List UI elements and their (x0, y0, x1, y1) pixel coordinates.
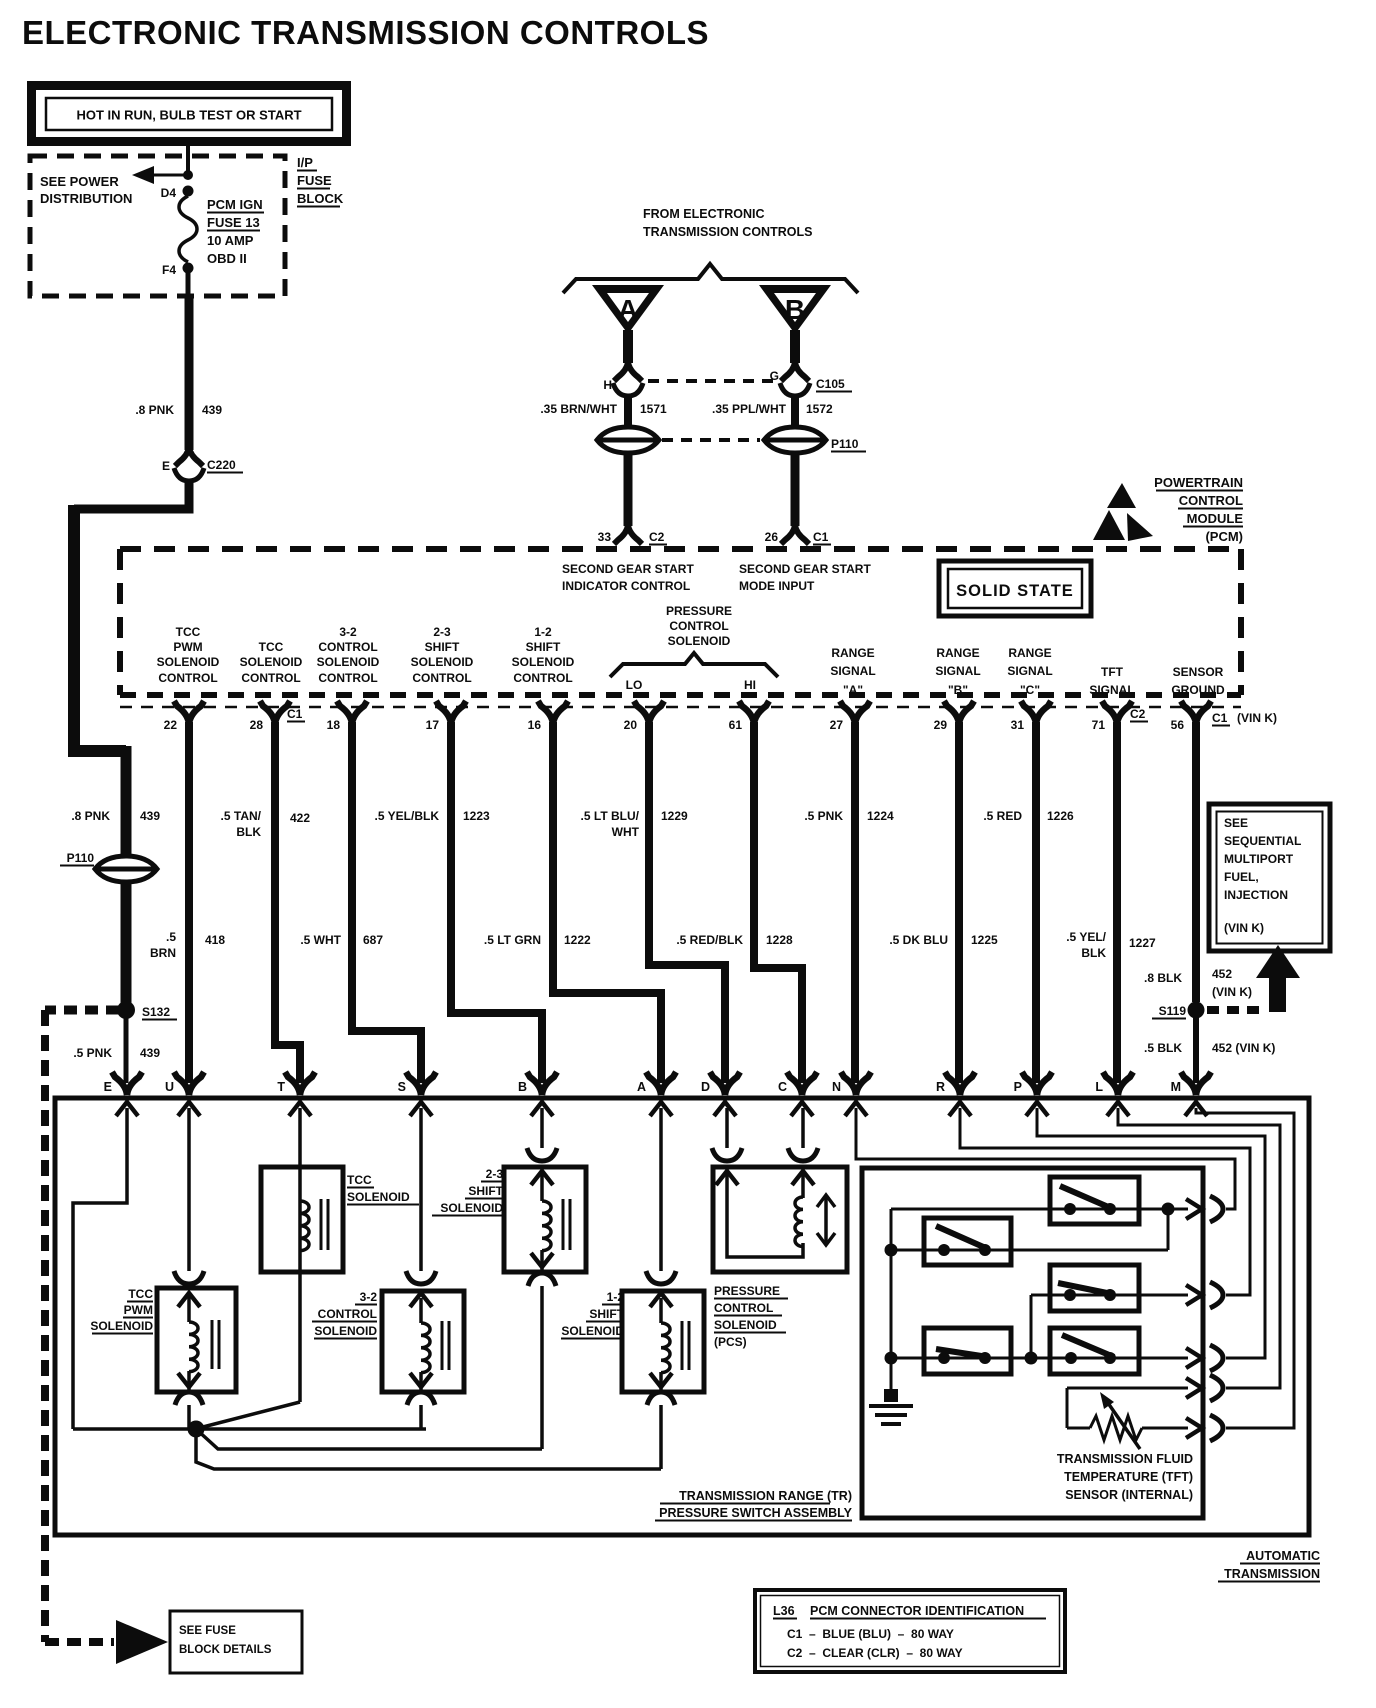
svg-text:.5 PNK: .5 PNK (73, 1046, 112, 1060)
svg-text:1226: 1226 (1047, 809, 1074, 823)
TR row 3 exit connector (1186, 1345, 1223, 1371)
pin arrow A (650, 1102, 672, 1116)
connector at TCC PWM solenoid top (174, 1271, 204, 1307)
svg-text:PWM: PWM (124, 1303, 153, 1317)
svg-text:SOLENOID: SOLENOID (90, 1319, 153, 1333)
wire .35 BRN/WHT 1571 (540, 397, 667, 425)
PCM pin 27 (830, 701, 870, 732)
svg-text:ELECTRONIC TRANSMISSION CONTRO: ELECTRONIC TRANSMISSION CONTROLS (22, 14, 709, 51)
svg-text:S132: S132 (142, 1005, 170, 1019)
TR row 2 exit connector (1186, 1282, 1223, 1308)
connector at TCC PWM solenoid bottom (175, 1373, 203, 1405)
svg-text:BLOCK DETAILS: BLOCK DETAILS (179, 1644, 272, 1656)
svg-text:SOLENOID: SOLENOID (668, 634, 731, 648)
label TCC SOLENOID CONTROL (240, 640, 303, 685)
label .5 DK BLU 1225 (889, 933, 998, 947)
I/P fuse block dashed box (30, 156, 285, 296)
svg-text:SOLENOID: SOLENOID (440, 1201, 503, 1215)
svg-text:418: 418 (205, 933, 225, 947)
wire D to PCS (725, 1108, 729, 1148)
transmission connector E (104, 1072, 142, 1095)
pin arrow D (714, 1102, 736, 1116)
svg-text:P110: P110 (831, 437, 859, 451)
svg-text:.35 BRN/WHT: .35 BRN/WHT (540, 402, 617, 416)
wire 439 below fuse (186, 272, 191, 296)
wire .8 PNK 439 lower (71, 746, 160, 854)
label .5 PNK 1224 (804, 809, 894, 823)
svg-text:1222: 1222 (564, 933, 591, 947)
svg-text:PCM IGN: PCM IGN (207, 197, 263, 212)
svg-text:1223: 1223 (463, 809, 490, 823)
wire 18 to S (352, 722, 421, 1083)
node D4 (161, 186, 194, 201)
svg-text:1227: 1227 (1129, 936, 1156, 950)
svg-text:2-3: 2-3 (433, 625, 451, 639)
wire R to TR row 2 (960, 1108, 1250, 1295)
label C1 at pin 28 (287, 707, 305, 722)
transmission connector M (1171, 1072, 1211, 1095)
dashed tie S119 to arrow (1207, 1006, 1262, 1014)
junction node row3 (1025, 1352, 1038, 1365)
switch SW5 (924, 1328, 1011, 1374)
brace PCS LO HI (610, 653, 778, 677)
triangle A (592, 285, 664, 334)
PCM pin 16 (528, 701, 568, 732)
svg-text:1229: 1229 (661, 809, 688, 823)
label RANGE SIGNAL C (1007, 646, 1052, 697)
svg-text:BLK: BLK (1081, 946, 1106, 960)
HOT IN RUN banner box (32, 86, 347, 142)
pin arrow P (1026, 1102, 1048, 1116)
wire A to pin 33 (624, 455, 633, 526)
fuse PCM IGN FUSE 13 10 AMP (179, 196, 197, 262)
svg-text:PRESSURE: PRESSURE (666, 604, 732, 618)
label PRESSURE CONTROL SOLENOID (666, 604, 732, 648)
splice S132 (117, 1001, 177, 1020)
svg-text:33: 33 (598, 530, 612, 544)
svg-text:18: 18 (327, 718, 341, 732)
svg-text:TRANSMISSION CONTROLS: TRANSMISSION CONTROLS (643, 225, 812, 239)
wire E inside box (73, 1108, 127, 1429)
label .5 YEL/BLK 1223 (375, 809, 490, 823)
svg-text:MODULE: MODULE (1187, 511, 1244, 526)
wire 31 to P (1032, 722, 1040, 1083)
pin arrow R (949, 1102, 971, 1116)
svg-text:.5 RED/BLK: .5 RED/BLK (676, 933, 743, 947)
svg-text:.5 YEL/: .5 YEL/ (1066, 930, 1106, 944)
svg-text:N: N (832, 1080, 841, 1094)
label 3-2 CONTROL SOLENOID CONTROL (317, 625, 380, 685)
label TCC PWM SOLENOID CONTROL (157, 625, 220, 685)
svg-text:S: S (398, 1080, 406, 1094)
solenoid 3-2 CONTROL (382, 1291, 464, 1392)
svg-text:27: 27 (830, 718, 844, 732)
pin 33 C2 (598, 525, 667, 545)
PCM pin 56 (1171, 701, 1211, 732)
PCM pin 22 (164, 701, 204, 732)
svg-text:A: A (618, 294, 638, 325)
label SECOND GEAR START INDICATOR CONTROL (562, 562, 694, 593)
svg-text:H: H (603, 378, 612, 392)
PCM dashed box (120, 549, 1241, 707)
svg-text:22: 22 (164, 718, 178, 732)
label AUTOMATIC TRANSMISSION (1218, 1549, 1320, 1582)
transmission connector A (637, 1072, 676, 1095)
transmission connector U (165, 1072, 204, 1095)
dashed tie C105 (648, 379, 776, 383)
wire T through TCC solenoid (298, 1108, 302, 1402)
svg-text:2-3: 2-3 (486, 1167, 504, 1181)
svg-text:M: M (1171, 1080, 1181, 1094)
pin 26 C1 (765, 525, 831, 545)
ground bus node at SW2 (885, 1244, 898, 1257)
drop from SW3 to row3 (1030, 1295, 1033, 1358)
PCM pin 18 (327, 701, 367, 732)
svg-text:POWERTRAIN: POWERTRAIN (1154, 475, 1243, 490)
svg-text:SHIFT: SHIFT (468, 1184, 503, 1198)
svg-text:SOLID STATE: SOLID STATE (956, 582, 1074, 600)
wire 29 to R (955, 722, 963, 1083)
wire to splice (121, 884, 132, 1004)
PCM pin 61 (729, 701, 769, 732)
svg-text:SOLENOID: SOLENOID (347, 1190, 410, 1204)
svg-text:(VIN K): (VIN K) (1212, 985, 1252, 999)
svg-text:(PCS): (PCS) (714, 1335, 747, 1349)
svg-text:SOLENOID: SOLENOID (561, 1324, 624, 1338)
svg-text:SOLENOID: SOLENOID (240, 655, 303, 669)
TR pressure switch assembly box (862, 1168, 1203, 1518)
wire 28 to T (275, 722, 300, 1083)
label C1 (VIN K) at pin 56 (1212, 711, 1277, 726)
wire 71 to L (1113, 722, 1121, 1083)
svg-text:31: 31 (1011, 718, 1025, 732)
label TRANSMISSION RANGE (TR) PRESSURE SWITCH ASSEMBLY (655, 1489, 853, 1521)
wire .8 PNK 439 (135, 296, 222, 450)
svg-text:T: T (277, 1080, 285, 1094)
svg-text:C: C (778, 1080, 787, 1094)
label 1-2 SHIFT SOLENOID CONTROL (512, 625, 575, 685)
svg-text:10 AMP: 10 AMP (207, 233, 254, 248)
svg-text:AUTOMATIC: AUTOMATIC (1246, 1549, 1320, 1563)
svg-text:FUSE 13: FUSE 13 (207, 215, 260, 230)
svg-text:(VIN K): (VIN K) (1224, 921, 1264, 935)
svg-text:TCC: TCC (259, 640, 284, 654)
svg-text:A: A (637, 1080, 646, 1094)
svg-text:TEMPERATURE (TFT): TEMPERATURE (TFT) (1064, 1470, 1193, 1484)
svg-text:RANGE: RANGE (936, 646, 979, 660)
svg-text:U: U (165, 1080, 174, 1094)
junction node row1 (1162, 1203, 1175, 1216)
svg-text:CONTROL: CONTROL (318, 1307, 377, 1321)
solenoid 2-3 SHIFT (504, 1167, 586, 1272)
PCM pin 29 (934, 701, 974, 732)
wire trunk left side (74, 505, 126, 751)
label I/P FUSE BLOCK (297, 155, 344, 207)
svg-text:C1 – BLUE (BLU) – 80 WAY: C1 – BLUE (BLU) – 80 WAY (787, 1627, 954, 1641)
SEE SEQUENTIAL MULTIPORT FUEL INJECTION box (1209, 804, 1330, 951)
label RANGE SIGNAL B (935, 646, 980, 697)
TR row 1 exit connector (1168, 1196, 1223, 1222)
wire A to 1-2 shift solenoid (659, 1108, 663, 1271)
svg-text:RANGE: RANGE (1008, 646, 1051, 660)
svg-text:SEQUENTIAL: SEQUENTIAL (1224, 834, 1301, 848)
SEE FUSE BLOCK DETAILS box (170, 1611, 302, 1673)
label SECOND GEAR START MODE INPUT (739, 562, 871, 593)
PCM pin 31 (1011, 701, 1051, 732)
svg-text:P110: P110 (67, 851, 95, 865)
label 2-3 SHIFT SOLENOID (432, 1167, 504, 1216)
svg-text:.5 WHT: .5 WHT (300, 933, 341, 947)
arrow to power distribution (132, 166, 187, 184)
PCM pin 20 (624, 701, 664, 732)
svg-text:.5 PNK: .5 PNK (804, 809, 843, 823)
svg-text:1-2: 1-2 (607, 1290, 625, 1304)
svg-text:GROUND: GROUND (1171, 683, 1225, 697)
wire U to TCC PWM solenoid (187, 1108, 191, 1271)
svg-text:CONTROL: CONTROL (513, 671, 572, 685)
wire 61 to C (754, 722, 802, 1083)
svg-text:C1: C1 (1212, 711, 1228, 725)
svg-text:3-2: 3-2 (360, 1290, 378, 1304)
svg-text:SECOND GEAR START: SECOND GEAR START (739, 562, 871, 576)
svg-text:SOLENOID: SOLENOID (317, 655, 380, 669)
svg-text:.8 PNK: .8 PNK (135, 403, 174, 417)
svg-text:56: 56 (1171, 718, 1185, 732)
svg-text:S119: S119 (1159, 1004, 1187, 1018)
wire from hot bus (186, 146, 190, 172)
TR row 3 wire (891, 1357, 1188, 1360)
svg-text:.5 BLK: .5 BLK (1144, 1041, 1182, 1055)
pin arrow E (116, 1102, 138, 1116)
node F4 (162, 263, 194, 278)
wire 2-3 solenoid to ground line (540, 1286, 544, 1449)
svg-text:.5 LT GRN: .5 LT GRN (484, 933, 541, 947)
svg-text:TRANSMISSION FLUID: TRANSMISSION FLUID (1057, 1452, 1193, 1466)
svg-text:R: R (936, 1080, 945, 1094)
wire L to TFT signal (1118, 1108, 1280, 1388)
svg-text:(VIN K): (VIN K) (1237, 711, 1277, 725)
svg-text:1225: 1225 (971, 933, 998, 947)
label TCC PWM SOLENOID (90, 1287, 153, 1334)
label RANGE SIGNAL A (830, 646, 875, 697)
label 1-2 SHIFT SOLENOID (561, 1290, 625, 1339)
switch SW1 (1050, 1177, 1139, 1224)
svg-text:SOLENOID: SOLENOID (512, 655, 575, 669)
svg-text:"A": "A" (843, 683, 863, 697)
connector at 2-3 solenoid top (527, 1148, 557, 1185)
svg-text:SEE: SEE (1224, 816, 1248, 830)
transmission connector D (701, 1072, 740, 1095)
drop from row1 junction (1167, 1209, 1170, 1250)
TR ground bus (890, 1209, 893, 1392)
solenoid PRESSURE CONTROL (PCS) (713, 1167, 847, 1272)
label .5 LT GRN 1222 (484, 933, 591, 947)
svg-text:452 (VIN K): 452 (VIN K) (1212, 1041, 1275, 1055)
TFT sensor top wire (1067, 1387, 1188, 1390)
svg-text:C2: C2 (1130, 707, 1146, 721)
ground bus node at row3 (885, 1352, 898, 1365)
ground bus line 2 (196, 1429, 542, 1449)
svg-text:71: 71 (1092, 718, 1106, 732)
svg-text:PCM CONNECTOR IDENTIFICATION: PCM CONNECTOR IDENTIFICATION (810, 1604, 1024, 1618)
svg-text:1572: 1572 (806, 402, 833, 416)
svg-text:C220: C220 (207, 458, 236, 472)
pin arrow M (1185, 1102, 1207, 1116)
wire TCC PWM to ground junction (187, 1405, 191, 1429)
label SENSOR GROUND (1171, 665, 1225, 697)
svg-text:C1: C1 (813, 530, 829, 544)
svg-text:CONTROL: CONTROL (714, 1301, 773, 1315)
label .5 YEL/BLK 1227 (1066, 930, 1156, 960)
svg-text:.5 DK BLU: .5 DK BLU (889, 933, 948, 947)
svg-text:16: 16 (528, 718, 542, 732)
label FROM ELECTRONIC TRANSMISSION CONTROLS (643, 207, 812, 239)
svg-text:422: 422 (290, 811, 310, 825)
switch SW3 (1050, 1265, 1139, 1311)
node at arrow tap (183, 170, 193, 180)
svg-text:B: B (518, 1080, 527, 1094)
pin arrow S (410, 1102, 432, 1116)
svg-text:SIGNAL: SIGNAL (935, 664, 980, 678)
connector C105 pin G (770, 362, 852, 396)
svg-text:1-2: 1-2 (534, 625, 552, 639)
wire from C220 down-left (74, 481, 189, 509)
svg-text:.8 PNK: .8 PNK (71, 809, 110, 823)
solenoid 1-2 SHIFT (622, 1291, 704, 1392)
wire N to TR row 1 (856, 1108, 1235, 1209)
svg-text:SIGNAL: SIGNAL (830, 664, 875, 678)
connector C220 pin E (162, 447, 243, 481)
pin arrow B (531, 1102, 553, 1116)
grommet P110 at A (597, 427, 659, 453)
wire 20 to D (649, 722, 725, 1083)
grommet P110 left (60, 851, 157, 882)
svg-text:TRANSMISSION: TRANSMISSION (1224, 1567, 1320, 1581)
svg-text:C1: C1 (287, 707, 303, 721)
wire P to TR row 3 (1037, 1108, 1265, 1358)
svg-text:1224: 1224 (867, 809, 894, 823)
solenoid TCC (261, 1167, 343, 1272)
wire M to TFT ground (1196, 1108, 1294, 1428)
svg-text:E: E (104, 1080, 112, 1094)
transmission connector L (1095, 1072, 1133, 1095)
svg-text:CONTROL: CONTROL (669, 619, 728, 633)
svg-text:HI: HI (744, 678, 756, 692)
connector at 3-2 solenoid bottom (407, 1373, 435, 1405)
svg-text:I/P: I/P (297, 155, 313, 170)
ground symbol (869, 1389, 913, 1424)
label TRANSMISSION FLUID TEMPERATURE (TFT) SENSOR (INTERNAL) (1057, 1452, 1193, 1502)
svg-text:SECOND GEAR START: SECOND GEAR START (562, 562, 694, 576)
wire from triangle A (623, 330, 633, 363)
wire .5 PNK 439 (73, 1018, 160, 1083)
label .5 BRN 418 (150, 930, 225, 960)
svg-text:SEE FUSE: SEE FUSE (179, 1625, 236, 1637)
svg-text:C2: C2 (649, 530, 665, 544)
switch SW2 (924, 1218, 1011, 1265)
wire 27 to N (851, 722, 859, 1083)
svg-text:28: 28 (250, 718, 264, 732)
automatic transmission box (55, 1098, 1309, 1535)
svg-text:1571: 1571 (640, 402, 667, 416)
svg-text:TCC: TCC (347, 1173, 372, 1187)
TR row 1 wire (891, 1208, 1168, 1211)
svg-text:CONTROL: CONTROL (1179, 493, 1243, 508)
svg-text:.5: .5 (166, 930, 176, 944)
label 2-3 SHIFT SOLENOID CONTROL (411, 625, 474, 685)
svg-text:E: E (162, 459, 170, 473)
svg-text:FROM ELECTRONIC: FROM ELECTRONIC (643, 207, 765, 221)
wire 56 upper .8 BLK 452 (1144, 722, 1252, 1002)
transmission connector S (398, 1072, 436, 1095)
svg-text:MODE INPUT: MODE INPUT (739, 579, 815, 593)
svg-text:CONTROL: CONTROL (318, 640, 377, 654)
svg-text:CONTROL: CONTROL (241, 671, 300, 685)
ground bus line 1 (73, 1427, 426, 1431)
svg-text:SHIFT: SHIFT (526, 640, 561, 654)
pin arrow C (791, 1102, 813, 1116)
svg-text:HOT IN RUN, BULB TEST OR START: HOT IN RUN, BULB TEST OR START (76, 108, 301, 123)
transmission connector R (936, 1072, 975, 1095)
svg-text:3-2: 3-2 (339, 625, 357, 639)
svg-text:L36: L36 (773, 1604, 795, 1618)
svg-text:FUEL,: FUEL, (1224, 870, 1259, 884)
transmission connector B (518, 1072, 557, 1095)
svg-text:439: 439 (140, 809, 160, 823)
svg-text:TFT: TFT (1101, 665, 1124, 679)
svg-text:.35 PPL/WHT: .35 PPL/WHT (712, 402, 787, 416)
svg-text:TRANSMISSION RANGE (TR): TRANSMISSION RANGE (TR) (679, 1489, 852, 1503)
svg-text:PRESSURE SWITCH ASSEMBLY: PRESSURE SWITCH ASSEMBLY (659, 1506, 853, 1520)
svg-text:"C": "C" (1020, 683, 1040, 697)
connector at 1-2 solenoid top (646, 1271, 676, 1307)
solenoid TCC PWM (157, 1288, 236, 1392)
svg-text:TCC: TCC (128, 1287, 153, 1301)
connector C105 pin H (603, 362, 643, 396)
svg-text:INDICATOR CONTROL: INDICATOR CONTROL (562, 579, 690, 593)
svg-text:SIGNAL: SIGNAL (1007, 664, 1052, 678)
label .5 LT BLU/WHT 1229 (581, 809, 688, 839)
arrow to fuel injection (1256, 945, 1300, 1012)
svg-text:.5 TAN/: .5 TAN/ (221, 809, 262, 823)
label PCM IGN FUSE 13 (207, 197, 264, 266)
svg-text:17: 17 (426, 718, 440, 732)
svg-text:29: 29 (934, 718, 948, 732)
svg-text:WHT: WHT (612, 825, 640, 839)
svg-text:F4: F4 (162, 263, 176, 277)
pin arrow U (178, 1102, 200, 1116)
wire B to pin 26 (791, 455, 800, 526)
svg-text:CONTROL: CONTROL (318, 671, 377, 685)
wire 1-2 solenoid to ground line (659, 1405, 663, 1469)
svg-text:687: 687 (363, 933, 383, 947)
svg-text:OBD II: OBD II (207, 251, 247, 266)
svg-text:L: L (1095, 1080, 1103, 1094)
pin arrow T (289, 1102, 311, 1116)
svg-text:FUSE: FUSE (297, 173, 332, 188)
label SEE POWER DISTRIBUTION (40, 174, 132, 206)
svg-text:20: 20 (624, 718, 638, 732)
pin arrow L (1107, 1102, 1129, 1116)
svg-text:P: P (1014, 1080, 1022, 1094)
splice S119 (1152, 1002, 1205, 1019)
svg-text:PWM: PWM (173, 640, 202, 654)
TFT row 5 exit connector (1186, 1415, 1223, 1441)
L36 PCM connector identification box (755, 1590, 1065, 1672)
transmission connector C (778, 1072, 817, 1095)
svg-text:439: 439 (140, 1046, 160, 1060)
svg-text:.8 BLK: .8 BLK (1144, 971, 1182, 985)
